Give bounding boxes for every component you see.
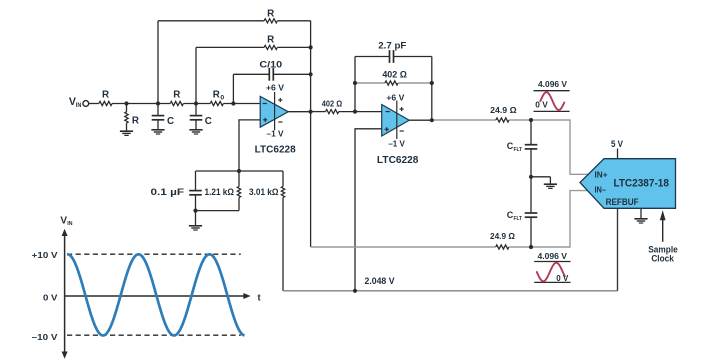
svg-text:–1 V: –1 V (267, 129, 284, 139)
svg-text:2.048 V: 2.048 V (365, 276, 395, 286)
svg-text:24.9 Ω: 24.9 Ω (490, 231, 515, 241)
svg-text:5 V: 5 V (611, 139, 623, 149)
svg-text:t: t (258, 292, 261, 303)
svg-text:0 V: 0 V (535, 100, 548, 110)
svg-text:–10 V: –10 V (32, 332, 58, 342)
svg-text:R: R (173, 89, 180, 100)
svg-text:402 Ω: 402 Ω (322, 99, 342, 109)
svg-text:1.21 kΩ: 1.21 kΩ (205, 187, 235, 197)
svg-text:4.096 V: 4.096 V (537, 251, 567, 261)
svg-text:R: R (267, 8, 274, 19)
svg-text:REFBUF: REFBUF (606, 197, 640, 207)
svg-text:0 V: 0 V (43, 293, 58, 303)
svg-text:R: R (132, 116, 139, 127)
svg-text:LTC6228: LTC6228 (255, 144, 297, 155)
svg-text:IN+: IN+ (595, 171, 608, 180)
svg-text:FLT: FLT (514, 147, 523, 153)
svg-text:+6 V: +6 V (386, 92, 404, 102)
svg-text:+10 V: +10 V (32, 250, 58, 260)
svg-text:IN: IN (67, 221, 72, 227)
svg-text:402 Ω: 402 Ω (382, 70, 407, 80)
svg-text:IN: IN (76, 103, 82, 109)
svg-text:FLT: FLT (514, 216, 523, 222)
svg-text:4.096 V: 4.096 V (538, 79, 567, 89)
svg-text:2.7 pF: 2.7 pF (378, 40, 407, 50)
svg-text:+6 V: +6 V (266, 82, 284, 92)
svg-text:C/10: C/10 (259, 60, 282, 70)
svg-text:C: C (167, 116, 174, 127)
svg-text:R: R (267, 35, 274, 46)
svg-text:–1 V: –1 V (388, 138, 405, 148)
svg-text:R: R (213, 89, 220, 100)
svg-text:LTC2387-18: LTC2387-18 (613, 177, 669, 189)
svg-text:0 V: 0 V (556, 273, 568, 283)
svg-text:C: C (205, 116, 212, 127)
svg-text:24.9 Ω: 24.9 Ω (490, 105, 517, 115)
svg-text:R: R (102, 89, 109, 100)
svg-text:Clock: Clock (651, 253, 674, 263)
svg-text:LTC6228: LTC6228 (377, 155, 419, 166)
svg-text:IN–: IN– (595, 185, 607, 194)
svg-text:0.1 µF: 0.1 µF (151, 187, 185, 197)
svg-text:3.01 kΩ: 3.01 kΩ (249, 187, 279, 197)
